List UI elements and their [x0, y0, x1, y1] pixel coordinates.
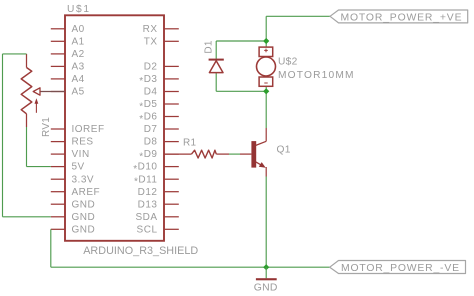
pin AREF (left)	[51, 187, 100, 198]
motor U$2 plus terminal	[264, 49, 268, 53]
svg-text:RX: RX	[143, 24, 158, 35]
svg-text:GND: GND	[254, 282, 278, 293]
svg-text:RES: RES	[72, 137, 94, 148]
pin A5 (left)	[51, 87, 85, 98]
svg-text:AREF: AREF	[72, 187, 101, 198]
svg-text:GND: GND	[72, 224, 96, 235]
svg-text:TX: TX	[144, 36, 158, 47]
wire diode cathode vertical	[215, 41, 217, 59]
net flag MOTOR_POWER_+VE	[330, 10, 468, 24]
pin 5V (left)	[51, 162, 85, 173]
pin A2 (left)	[51, 49, 85, 60]
svg-text:D4: D4	[144, 87, 158, 98]
potentiometer RV1 wiper arrow	[33, 88, 65, 95]
pin D12 (right)	[138, 187, 179, 198]
svg-text:D2: D2	[144, 62, 158, 73]
svg-text:A0: A0	[72, 24, 85, 35]
svg-text:A2: A2	[72, 49, 85, 60]
wire collector up to motor	[265, 86, 267, 128]
junction ground rail	[263, 264, 269, 270]
pin GND (left)	[51, 199, 95, 210]
pin GND (left)	[51, 224, 95, 235]
resistor R1 right lead	[216, 153, 229, 155]
pin D13 (right)	[138, 199, 179, 210]
wire left rail to GND pin	[3, 216, 51, 218]
svg-text:A3: A3	[72, 62, 85, 73]
wire left rail vertical	[2, 54, 4, 217]
resistor R1 left lead	[164, 153, 192, 155]
pin A4 (left)	[51, 74, 85, 85]
potentiometer RV1 zigzag body	[21, 68, 32, 114]
junction diode/motor top	[263, 38, 269, 44]
wire pot-bottom down	[26, 127, 28, 167]
motor U$2 minus terminal	[264, 82, 267, 84]
svg-text:RV1: RV1	[41, 117, 52, 137]
svg-text:SCL: SCL	[137, 224, 158, 235]
pin D4 (right)	[144, 87, 179, 98]
pin RX (right)	[143, 24, 179, 35]
transistor Q1 base bar	[251, 141, 256, 168]
transistor Q1 base pin	[240, 153, 251, 155]
svg-text:A5: A5	[72, 87, 85, 98]
ground GND symbol	[256, 267, 277, 280]
pin *D11 (right)	[134, 174, 179, 187]
motor U$2 top bracket	[259, 47, 273, 56]
svg-text:MOTOR_POWER_-VE: MOTOR_POWER_-VE	[341, 263, 459, 274]
diode D1 triangle	[209, 61, 223, 73]
svg-text:D1: D1	[204, 40, 215, 54]
pin *D9 (right)	[139, 149, 179, 162]
potentiometer RV1 bottom pin	[26, 114, 28, 127]
wire motor top to +VE corner	[265, 16, 267, 47]
svg-text:D8: D8	[144, 137, 158, 148]
wire GND pin down	[50, 229, 52, 267]
IC U$1 ARDUINO_R3_SHIELD body	[65, 15, 164, 241]
transistor Q1 collector	[256, 128, 266, 145]
potentiometer RV1 top pin	[26, 54, 28, 68]
svg-text:*D11: *D11	[134, 174, 158, 187]
diode D1 cathode bar	[209, 59, 224, 61]
pin TX (right)	[144, 36, 179, 47]
net flag MOTOR_POWER_-VE	[330, 261, 466, 275]
potentiometer RV1 trim arrow	[35, 98, 39, 113]
svg-text:MOTOR_POWER_+VE: MOTOR_POWER_+VE	[341, 13, 462, 24]
svg-text:GND: GND	[72, 212, 96, 223]
pin *D5 (right)	[139, 99, 179, 112]
svg-text:GND: GND	[72, 199, 96, 210]
pin D7 (right)	[144, 124, 179, 135]
motor U$2 body circle	[257, 57, 276, 76]
transistor Q1 emitter with arrow	[256, 162, 266, 177]
junction diode/motor bottom	[263, 88, 269, 94]
svg-text:ARDUINO_R3_SHIELD: ARDUINO_R3_SHIELD	[83, 245, 198, 257]
svg-text:*D5: *D5	[139, 99, 157, 112]
pin GND (left)	[51, 212, 95, 223]
resistor R1 zigzag	[192, 150, 217, 158]
svg-text:*D6: *D6	[139, 112, 157, 125]
svg-text:*D10: *D10	[133, 162, 157, 175]
pin D2 (right)	[144, 62, 179, 73]
pin RES (left)	[51, 137, 94, 148]
svg-text:*D3: *D3	[139, 74, 157, 87]
svg-text:MOTOR10MM: MOTOR10MM	[278, 70, 354, 81]
wire pot-top to left rail	[3, 53, 27, 55]
svg-text:D13: D13	[138, 199, 158, 210]
pin SDA (right)	[135, 212, 178, 223]
svg-text:Q1: Q1	[277, 145, 291, 156]
pin A3 (left)	[51, 62, 85, 73]
pin SCL (right)	[137, 224, 179, 235]
pin *D10 (right)	[133, 162, 179, 175]
svg-text:U$1: U$1	[67, 4, 89, 15]
pin A1 (left)	[51, 36, 85, 47]
svg-text:3.3V: 3.3V	[72, 174, 95, 185]
pin D8 (right)	[144, 137, 179, 148]
wire diode anode vertical	[215, 73, 217, 92]
svg-text:D7: D7	[144, 124, 158, 135]
motor U$2 bottom bracket	[259, 77, 273, 86]
wire top to +VE flag	[266, 15, 330, 17]
svg-text:R1: R1	[183, 138, 197, 149]
pin A0 (left)	[51, 24, 85, 35]
svg-text:A4: A4	[72, 74, 85, 85]
pin *D3 (right)	[139, 74, 179, 87]
svg-text:SDA: SDA	[135, 212, 157, 223]
svg-text:5V: 5V	[72, 162, 85, 173]
pin VIN (left)	[51, 149, 90, 160]
wire emitter down to ground rail	[265, 177, 267, 268]
svg-text:IOREF: IOREF	[72, 124, 105, 135]
wire R1 to Q1 base	[229, 153, 240, 155]
wire diode top horizontal	[216, 40, 266, 42]
pin IOREF (left)	[51, 124, 105, 135]
wire bottom ground rail	[51, 266, 330, 268]
wire pot-bottom to 5V pin	[27, 166, 51, 168]
svg-text:A1: A1	[72, 36, 85, 47]
pin *D6 (right)	[139, 112, 179, 125]
svg-text:VIN: VIN	[72, 149, 90, 160]
svg-text:U$2: U$2	[278, 57, 298, 68]
svg-text:D12: D12	[138, 187, 158, 198]
pin 3.3V (left)	[51, 174, 94, 185]
wire diode bottom horizontal	[216, 90, 266, 92]
svg-text:*D9: *D9	[139, 149, 157, 162]
